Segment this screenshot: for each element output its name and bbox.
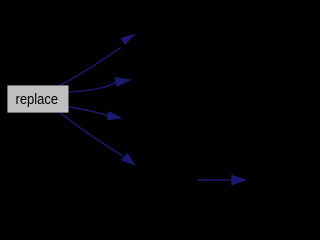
- svg-text:replace: replace: [16, 91, 59, 108]
